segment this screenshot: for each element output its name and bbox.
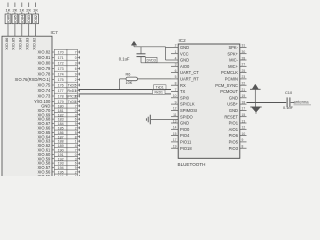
svg-text:0.1uF: 0.1uF bbox=[119, 56, 130, 61]
svg-text:170: 170 bbox=[58, 51, 64, 55]
svg-text:6: 6 bbox=[75, 67, 77, 71]
svg-text:RxD1: RxD1 bbox=[154, 91, 163, 95]
svg-text:10: 10 bbox=[242, 132, 246, 136]
svg-text:PIO1: PIO1 bbox=[229, 121, 239, 126]
svg-text:171: 171 bbox=[58, 56, 64, 60]
svg-text:SPIDO: SPIDO bbox=[180, 114, 193, 119]
svg-text:PCMIN: PCMIN bbox=[225, 77, 238, 82]
svg-text:3: 3 bbox=[75, 62, 77, 66]
svg-text:MIC+: MIC+ bbox=[228, 64, 239, 69]
svg-text:PIO18: PIO18 bbox=[180, 146, 192, 151]
svg-text:PIO0: PIO0 bbox=[180, 127, 190, 132]
svg-text:GND: GND bbox=[229, 108, 238, 113]
svg-text:18: 18 bbox=[242, 100, 246, 104]
svg-text:12: 12 bbox=[242, 126, 246, 130]
svg-text:8: 8 bbox=[242, 145, 244, 149]
svg-text:IO82: IO82 bbox=[34, 15, 38, 23]
svg-text:12: 12 bbox=[173, 107, 177, 111]
svg-text:GND: GND bbox=[180, 45, 189, 50]
svg-text:TxD1: TxD1 bbox=[68, 84, 76, 88]
svg-text:2K: 2K bbox=[26, 7, 31, 12]
svg-text:9: 9 bbox=[175, 100, 177, 104]
svg-text:SPK+: SPK+ bbox=[227, 51, 238, 56]
svg-text:173: 173 bbox=[58, 67, 64, 71]
svg-text:antenna: antenna bbox=[294, 100, 310, 105]
svg-text:6: 6 bbox=[175, 69, 177, 73]
svg-text:28: 28 bbox=[242, 56, 246, 60]
svg-text:2: 2 bbox=[175, 44, 177, 48]
svg-text:1K: 1K bbox=[6, 7, 11, 12]
svg-text:SPICLK: SPICLK bbox=[180, 102, 195, 107]
svg-text:9: 9 bbox=[75, 73, 77, 77]
svg-text:XIO.83: XIO.83 bbox=[25, 38, 30, 50]
svg-text:PCMCLK: PCMCLK bbox=[221, 70, 238, 75]
svg-text:19: 19 bbox=[173, 145, 177, 149]
svg-text:13: 13 bbox=[242, 119, 246, 123]
svg-text:PCM_SYNC: PCM_SYNC bbox=[215, 83, 238, 88]
svg-text:RxD1: RxD1 bbox=[68, 89, 77, 93]
svg-text:SPI0: SPI0 bbox=[180, 95, 190, 100]
svg-text:174: 174 bbox=[58, 73, 64, 77]
svg-text:5: 5 bbox=[75, 175, 77, 176]
svg-text:MIC-: MIC- bbox=[229, 58, 239, 63]
svg-text:IC2: IC2 bbox=[179, 38, 187, 43]
svg-text:UART_RT: UART_RT bbox=[180, 77, 199, 82]
svg-text:0: 0 bbox=[75, 56, 77, 60]
svg-text:178: 178 bbox=[58, 95, 64, 99]
svg-text:177: 177 bbox=[58, 89, 64, 93]
svg-text:3: 3 bbox=[175, 63, 177, 67]
svg-text:10: 10 bbox=[173, 94, 177, 98]
svg-text:RX: RX bbox=[180, 83, 186, 88]
svg-text:PCMOUT: PCMOUT bbox=[220, 89, 238, 94]
svg-text:IC7: IC7 bbox=[51, 30, 59, 35]
svg-text:PIO4: PIO4 bbox=[180, 133, 190, 138]
svg-text:UART_CT: UART_CT bbox=[180, 70, 199, 75]
svg-text:TxD0: TxD0 bbox=[68, 100, 76, 104]
svg-text:15: 15 bbox=[242, 113, 246, 117]
svg-text:31: 31 bbox=[242, 44, 246, 48]
svg-text:196: 196 bbox=[58, 175, 64, 176]
svg-text:9: 9 bbox=[242, 138, 244, 142]
svg-text:XIO.85: XIO.85 bbox=[11, 38, 16, 50]
svg-text:27: 27 bbox=[242, 63, 246, 67]
svg-text:21: 21 bbox=[242, 88, 246, 92]
svg-text:IO86: IO86 bbox=[7, 15, 11, 23]
svg-text:IO84: IO84 bbox=[20, 15, 24, 23]
svg-text:PIO11: PIO11 bbox=[180, 140, 192, 145]
svg-text:SPIMOSI: SPIMOSI bbox=[180, 108, 197, 113]
svg-text:5: 5 bbox=[175, 75, 177, 79]
svg-text:0.1uF: 0.1uF bbox=[283, 105, 294, 110]
svg-text:XIO.73: XIO.73 bbox=[38, 94, 51, 99]
svg-text:PIO6: PIO6 bbox=[229, 133, 239, 138]
svg-text:XIO.76(RXD/PIO.1): XIO.76(RXD/PIO.1) bbox=[15, 77, 51, 82]
svg-text:1K: 1K bbox=[33, 7, 38, 12]
svg-text:TX: TX bbox=[180, 89, 186, 94]
svg-text:USB+: USB+ bbox=[227, 102, 238, 107]
svg-text:13: 13 bbox=[173, 119, 177, 123]
svg-text:XIO.79: XIO.79 bbox=[38, 66, 51, 71]
svg-text:1: 1 bbox=[175, 50, 177, 54]
svg-text:IO83: IO83 bbox=[27, 15, 31, 23]
svg-text:R6: R6 bbox=[126, 72, 131, 76]
svg-text:19: 19 bbox=[242, 94, 246, 98]
svg-text:XIO.82: XIO.82 bbox=[31, 38, 36, 50]
svg-text:XIO.74: XIO.74 bbox=[38, 88, 51, 93]
svg-text:IO85: IO85 bbox=[13, 15, 17, 23]
svg-text:23: 23 bbox=[242, 75, 246, 79]
svg-text:XIO.84: XIO.84 bbox=[18, 37, 23, 50]
svg-text:XIO.78: XIO.78 bbox=[38, 72, 51, 77]
svg-text:4: 4 bbox=[175, 56, 177, 60]
svg-text:XIO.81: XIO.81 bbox=[38, 55, 51, 60]
svg-text:2K: 2K bbox=[12, 7, 17, 12]
svg-text:25: 25 bbox=[242, 69, 246, 73]
svg-text:XIO.86: XIO.86 bbox=[4, 38, 9, 50]
svg-text:17: 17 bbox=[173, 138, 177, 142]
svg-text:RESET: RESET bbox=[224, 114, 238, 119]
svg-text:30: 30 bbox=[242, 50, 246, 54]
svg-text:7: 7 bbox=[75, 51, 77, 55]
svg-text:XIO.82: XIO.82 bbox=[38, 50, 51, 55]
svg-text:XIO.55: XIO.55 bbox=[38, 174, 51, 176]
svg-text:8: 8 bbox=[175, 82, 177, 86]
svg-text:AIO1: AIO1 bbox=[229, 127, 239, 132]
svg-text:172: 172 bbox=[58, 62, 64, 66]
svg-text:17: 17 bbox=[242, 107, 246, 111]
svg-text:XIO.75: XIO.75 bbox=[38, 83, 51, 88]
svg-text:175: 175 bbox=[58, 78, 64, 82]
svg-text:GND: GND bbox=[180, 58, 189, 63]
svg-text:BLUETOOTH: BLUETOOTH bbox=[178, 162, 206, 167]
svg-text:15: 15 bbox=[173, 132, 177, 136]
svg-text:10K: 10K bbox=[126, 81, 133, 85]
svg-text:PIO5: PIO5 bbox=[229, 140, 239, 145]
svg-text:SPK-: SPK- bbox=[228, 45, 238, 50]
svg-text:PIO3: PIO3 bbox=[229, 146, 239, 151]
svg-text:VCC: VCC bbox=[180, 51, 189, 56]
svg-text:2: 2 bbox=[75, 78, 77, 82]
svg-text:11: 11 bbox=[173, 113, 177, 117]
svg-text:GND: GND bbox=[229, 95, 238, 100]
svg-text:1K: 1K bbox=[19, 7, 24, 12]
svg-text:22: 22 bbox=[242, 82, 246, 86]
svg-text:C10: C10 bbox=[285, 90, 293, 95]
svg-text:7: 7 bbox=[175, 88, 177, 92]
svg-text:XIO.80: XIO.80 bbox=[38, 61, 51, 66]
svg-text:GND: GND bbox=[180, 121, 189, 126]
svg-text:AIO0: AIO0 bbox=[180, 64, 190, 69]
svg-text:DVD3: DVD3 bbox=[147, 59, 156, 63]
svg-text:14: 14 bbox=[173, 126, 177, 130]
svg-text:TxD1: TxD1 bbox=[156, 86, 164, 90]
svg-text:176: 176 bbox=[58, 84, 64, 88]
svg-text:SPIC30: SPIC30 bbox=[66, 95, 78, 99]
